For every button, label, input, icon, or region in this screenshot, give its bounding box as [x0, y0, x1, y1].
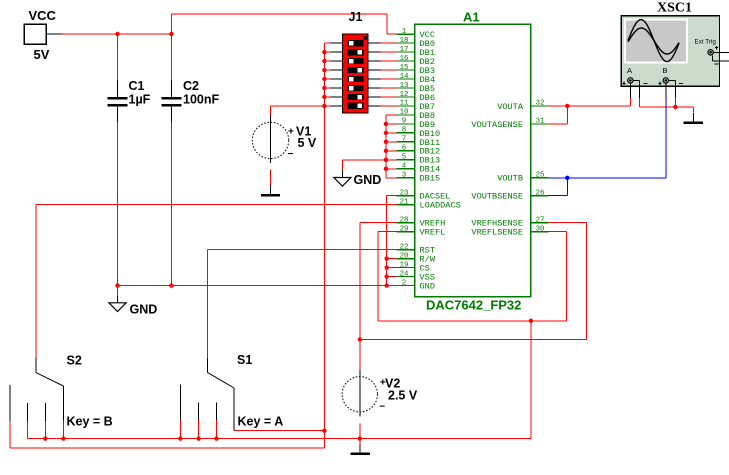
svg-text:1: 1: [402, 28, 407, 36]
svg-text:2: 2: [402, 279, 406, 287]
svg-text:XSC1: XSC1: [657, 1, 692, 16]
svg-text:C1: C1: [129, 79, 145, 93]
svg-text:100nF: 100nF: [183, 93, 219, 107]
svg-text:J1: J1: [349, 10, 363, 24]
svg-text:+: +: [288, 127, 294, 138]
svg-text:GND: GND: [420, 281, 435, 291]
svg-text:−: −: [379, 401, 385, 412]
svg-text:17: 17: [400, 46, 409, 54]
svg-text:10: 10: [400, 109, 409, 117]
svg-text:DB15: DB15: [420, 174, 441, 184]
svg-text:26: 26: [536, 190, 545, 198]
svg-text:LOADDACS: LOADDACS: [420, 201, 461, 211]
svg-text:7: 7: [402, 136, 406, 144]
svg-text:4: 4: [402, 163, 407, 171]
svg-text:1µF: 1µF: [129, 93, 151, 107]
svg-text:23: 23: [400, 190, 409, 198]
svg-text:VCC: VCC: [29, 8, 57, 23]
svg-text:5 V: 5 V: [298, 136, 317, 150]
svg-text:VOUTA: VOUTA: [497, 102, 524, 112]
svg-text:16: 16: [400, 55, 409, 63]
svg-text:32: 32: [536, 100, 545, 108]
svg-text:GND: GND: [130, 303, 158, 317]
svg-text:A1: A1: [463, 10, 480, 25]
svg-text:5V: 5V: [34, 47, 50, 62]
svg-text:14: 14: [400, 73, 409, 81]
svg-text:C2: C2: [183, 79, 199, 93]
svg-text:6: 6: [402, 145, 406, 153]
svg-text:B: B: [663, 66, 668, 75]
svg-text:5: 5: [402, 154, 406, 162]
svg-text:15: 15: [400, 64, 409, 72]
svg-text:22: 22: [400, 243, 409, 251]
svg-text:3: 3: [402, 172, 406, 180]
svg-text:Ext Trig: Ext Trig: [695, 39, 717, 46]
svg-text:Key = A: Key = A: [238, 415, 284, 429]
svg-text:GND: GND: [354, 173, 382, 187]
svg-text:11: 11: [400, 100, 409, 108]
svg-text:DAC7642_FP32: DAC7642_FP32: [426, 298, 521, 313]
svg-text:29: 29: [400, 225, 409, 233]
svg-text:A: A: [627, 66, 632, 75]
svg-text:30: 30: [536, 225, 545, 233]
svg-text:31: 31: [536, 118, 545, 126]
svg-text:25: 25: [536, 172, 545, 180]
svg-text:18: 18: [400, 37, 409, 45]
svg-text:VREFLSENSE: VREFLSENSE: [471, 228, 523, 238]
svg-text:13: 13: [400, 82, 409, 90]
svg-text:19: 19: [400, 261, 409, 269]
svg-text:S2: S2: [67, 354, 82, 368]
svg-text:VOUTB: VOUTB: [497, 174, 523, 184]
svg-text:Key = B: Key = B: [67, 415, 113, 429]
svg-text:24: 24: [400, 270, 409, 278]
svg-text:VOUTASENSE: VOUTASENSE: [471, 120, 523, 130]
svg-text:−: −: [288, 149, 294, 160]
svg-text:VREFL: VREFL: [420, 228, 446, 238]
svg-text:VOUTBSENSE: VOUTBSENSE: [471, 192, 523, 202]
svg-text:2.5 V: 2.5 V: [388, 389, 418, 403]
svg-text:20: 20: [400, 252, 409, 260]
svg-text:8: 8: [402, 127, 406, 135]
svg-text:12: 12: [400, 91, 409, 99]
svg-text:28: 28: [400, 216, 409, 224]
svg-text:27: 27: [536, 216, 545, 224]
svg-text:21: 21: [400, 199, 409, 207]
svg-text:S1: S1: [237, 353, 252, 367]
svg-text:9: 9: [402, 118, 406, 126]
